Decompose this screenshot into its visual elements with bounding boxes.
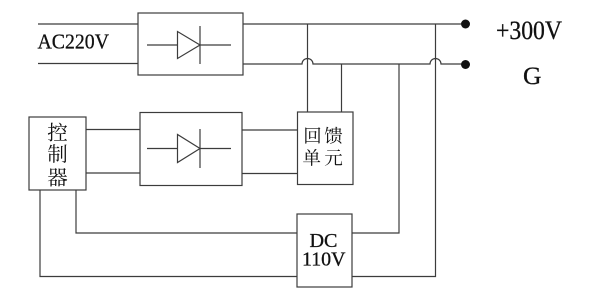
diode D2 triangle	[178, 135, 201, 163]
label 馈 (feedback char 2)	[325, 127, 342, 144]
diode D2 cathode bar	[199, 129, 201, 168]
wire from G bus down to feedback unit	[341, 64, 343, 112]
wire rectifier to feedback unit (lower)	[242, 173, 298, 175]
svg-text:G: G	[523, 61, 541, 90]
wire from G bus down to DC 110V right upper	[352, 64, 399, 233]
wire controller bottom-right to DC 110V left upper	[76, 190, 297, 233]
wire from +300V bus down to DC 110V right lower	[352, 24, 436, 277]
wire AC line N (bottom-left)	[38, 63, 138, 65]
label 控 (controller char 1)	[48, 123, 67, 142]
controller box 控制器	[29, 117, 86, 190]
label 元 (feedback char 4)	[325, 149, 342, 166]
svg-text:AC220V: AC220V	[38, 30, 110, 54]
svg-text:110V: 110V	[302, 249, 346, 271]
label 单 (feedback char 3)	[303, 149, 320, 166]
label 器 (controller char 3)	[48, 168, 67, 186]
diode D1 triangle	[178, 32, 201, 59]
label 制 (controller char 2)	[48, 144, 67, 163]
diode D1 cathode bar	[199, 26, 201, 64]
diode D1 cathode lead	[200, 44, 231, 46]
wire controller to rectifier (lower)	[86, 172, 140, 174]
node G terminal dot	[461, 60, 470, 69]
node +300V terminal dot	[461, 20, 470, 29]
diode D1 anode lead	[147, 44, 178, 46]
svg-text:+300V: +300V	[496, 16, 562, 45]
wire rectifier to feedback unit (upper)	[242, 129, 298, 131]
diode D2 cathode lead	[200, 148, 231, 150]
wire controller bottom-left to DC 110V left lower	[40, 190, 297, 277]
rectifier/inverter box (middle)	[140, 113, 242, 186]
DC 110V supply box	[297, 214, 352, 287]
wire +300V bus (top)	[243, 23, 461, 25]
diode D2 anode lead	[147, 148, 178, 150]
wire controller to rectifier (upper)	[86, 129, 140, 131]
rectifier bridge box (top)	[138, 13, 243, 75]
wire from +300V bus down to feedback unit	[307, 24, 309, 112]
wire G bus with crossover hops	[243, 59, 461, 65]
label 回 (feedback char 1)	[305, 127, 320, 143]
wire AC line L (top-left)	[38, 23, 138, 25]
feedback unit box 回馈单元	[298, 112, 354, 185]
